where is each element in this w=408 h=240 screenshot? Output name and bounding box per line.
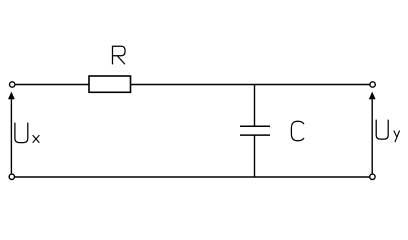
terminal: input top: [10, 82, 15, 87]
terminal: output bottom: [370, 174, 375, 179]
terminal: output top: [370, 82, 375, 87]
wire: capacitor bottom lead: [254, 135, 256, 177]
label R: [113, 46, 126, 64]
capacitor C (plates): [240, 126, 270, 135]
label C: [291, 121, 303, 141]
wire: bottom rail: [15, 176, 370, 178]
terminal: input bottom: [9, 174, 14, 179]
arrow: Ux (input voltage, pointing up): [8, 92, 15, 174]
label Ux: [15, 123, 39, 142]
label Uy: [376, 120, 399, 141]
wire: top rail left segment (input terminal to resistor): [15, 84, 89, 86]
wire: top rail right segment (resistor to output terminal): [131, 84, 370, 86]
resistor R (body): [89, 76, 131, 92]
wire: capacitor top lead: [254, 85, 256, 127]
arrow: Uy (output voltage, pointing up): [369, 92, 376, 174]
